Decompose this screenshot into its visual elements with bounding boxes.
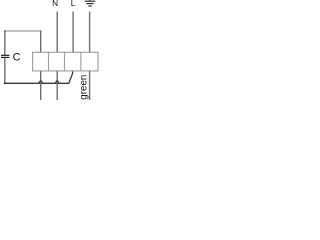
capacitor C plates (1, 55, 10, 57)
wire capacitor bottom drop (4, 58, 6, 84)
wire down into terminal 1 (40, 31, 42, 52)
svg-text:L: L (71, 0, 76, 8)
wire green down from terminal 4 (89, 71, 91, 100)
earth lead stub (89, 0, 91, 1)
wire top horizontal run (4, 30, 41, 32)
svg-text:green: green (78, 75, 89, 100)
terminal divider 1 (48, 52, 50, 71)
earth ground symbol (85, 1, 96, 6)
corner dark node top-left (4, 30, 5, 31)
corner dark node at terminal 1 riser (40, 30, 41, 31)
wire capacitor top: vertical riser (4, 31, 6, 55)
terminal divider 2 (64, 52, 66, 71)
wire N (56, 12, 58, 53)
wire earth (89, 12, 91, 53)
wire bottom horizontal run (4, 71, 72, 83)
corner dark node bottom-left (4, 83, 6, 85)
svg-text:N: N (52, 0, 58, 8)
wire down from terminal 1 (40, 71, 42, 100)
terminal block box (33, 52, 98, 71)
wire hop 1 (38, 80, 43, 83)
wire hop 2 (55, 80, 60, 83)
wire L (72, 12, 74, 53)
svg-text:C: C (13, 52, 21, 64)
wire down from terminal 2 (56, 71, 58, 100)
terminal divider 3 (80, 52, 82, 71)
